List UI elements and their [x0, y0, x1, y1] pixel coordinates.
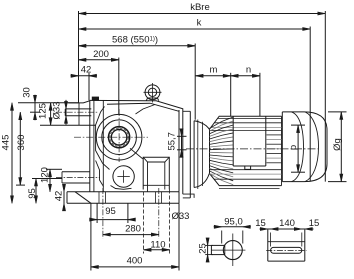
- block lower line: [143, 184, 169, 186]
- bell seam 1: [197, 120, 199, 190]
- stator right edge: [281, 116, 283, 185]
- dim 445 line: [11, 103, 13, 204]
- flange bell: [193, 121, 195, 188]
- svg-text:15: 15: [255, 218, 266, 229]
- dim k line: [79, 28, 311, 30]
- block inner right vertical: [164, 162, 166, 190]
- svg-text:n: n: [246, 65, 251, 76]
- ext key left: [270, 233, 272, 247]
- foot hole axis right (x=158.8): [158, 188, 160, 239]
- detail2 outer rect: [267, 230, 269, 262]
- tick 55,7 bottom: [177, 149, 187, 151]
- box bottom tab: [245, 166, 251, 169]
- dim kBre line: [79, 13, 326, 15]
- box bottom edge: [233, 165, 266, 167]
- svg-text:p: p: [288, 145, 299, 150]
- hub face vertical: [78, 103, 80, 125]
- housing flange vertical x=103.3: [102, 101, 104, 192]
- dim 400 line: [91, 266, 179, 268]
- + cross horizontal: [117, 176, 129, 178]
- detail2 centerline: [266, 249, 306, 251]
- dim 95 bottom line: [90, 219, 135, 221]
- tick 55,7 top: [177, 135, 187, 137]
- ext line y=178.5: [32, 178, 62, 180]
- tick p bottom: [291, 171, 305, 173]
- output bearing boss outer circle: [96, 114, 142, 160]
- dim m line: [196, 75, 231, 77]
- svg-text:m: m: [210, 65, 218, 76]
- spline pitch circle dashed: [110, 128, 128, 146]
- dim 30 line: [34, 95, 36, 120]
- stator left edge: [209, 129, 211, 173]
- dim p line: [297, 125, 299, 172]
- fan cowl seam arc 1: [292, 112, 304, 182]
- svg-text:400: 400: [127, 256, 143, 267]
- motor stator octagon outline: [210, 116, 282, 129]
- contour lower left: [96, 161, 104, 187]
- detail shaft end circle: [223, 241, 242, 260]
- svg-text:Øg: Øg: [332, 138, 343, 151]
- gearbox left wall: [89, 100, 91, 191]
- gearbox right wall inner line: [178, 110, 180, 192]
- block top bevel lines: [143, 157, 169, 162]
- ext line k-right through fan cowl (x=310.2): [309, 27, 311, 182]
- ext 95,0 left: [221, 231, 223, 244]
- hub bottom / ext 125 (y=125.2): [40, 124, 96, 126]
- dim 280 line: [103, 234, 159, 236]
- eyebolt axis vertical: [152, 83, 154, 103]
- bore inner circle: [111, 129, 127, 145]
- ext line 200-right (x=118.8): [118, 58, 120, 115]
- bell top curve: [194, 121, 209, 130]
- dim 200 line: [79, 59, 119, 61]
- detail1 key slot: [211, 244, 224, 246]
- svg-text:95: 95: [27, 188, 38, 199]
- svg-text:95: 95: [105, 206, 116, 217]
- shaft end cap: [64, 109, 66, 116]
- stator fin lines: [218, 117, 282, 119]
- dim 360 line: [19, 112, 21, 185]
- bell seam 2: [201, 122, 203, 186]
- tick 25 top: [205, 244, 213, 246]
- detail2 inner line: [268, 241, 305, 243]
- svg-text:200: 200: [93, 49, 109, 60]
- motor bottom skirt line: [219, 188, 280, 190]
- adapter foot: [183, 194, 194, 198]
- eyebolt ring inner: [148, 88, 156, 96]
- svg-text:110: 110: [150, 240, 165, 251]
- ext 400 right (x=179): [178, 203, 180, 270]
- shaft stub axis: [56, 111, 98, 113]
- contour upper right: [136, 105, 156, 115]
- svg-text:Ø33: Ø33: [52, 102, 63, 120]
- contour block to circle diagonal: [130, 148, 143, 159]
- ext 95 left (x=97.1): [96, 203, 98, 223]
- eyebolt ring: [145, 85, 160, 100]
- svg-text:42: 42: [54, 191, 65, 202]
- gearbox left wall inner line: [93, 101, 95, 192]
- fan cowl seam arc 2: [305, 112, 319, 182]
- gearbox housing outline: [90, 100, 183, 194]
- detail1 vertical centerline: [232, 234, 234, 267]
- ext 110 left (x=143.6): [143, 192, 145, 254]
- dim 55,7 line: [181, 129, 183, 157]
- lower stub axis: [56, 176, 100, 178]
- dim O33 left line: [65, 100, 67, 125]
- svg-text:445: 445: [1, 135, 12, 151]
- output axis horizontal: [74, 136, 148, 138]
- contour below + circle: [111, 186, 132, 190]
- block inner left vertical: [147, 162, 149, 192]
- lower shaft stub left: [62, 171, 90, 173]
- svg-text:25: 25: [198, 243, 209, 254]
- svg-text:15: 15: [309, 218, 320, 229]
- tick p top: [291, 124, 305, 126]
- svg-text:120: 120: [40, 167, 51, 183]
- dim 125 line: [50, 103, 52, 125]
- ext 400 left (x=90.9): [90, 203, 92, 270]
- eyebolt base: [146, 98, 159, 101]
- box left vertical: [232, 116, 234, 166]
- ext Og bottom: [328, 181, 347, 183]
- ext line left face (x=78.5): [78, 11, 80, 103]
- eyebolt axis horizontal: [144, 91, 162, 93]
- foot hole axis left (x=102.9): [102, 188, 104, 239]
- tick 120 top (y=169.3): [46, 168, 62, 170]
- svg-text:42: 42: [81, 65, 92, 76]
- ext key right: [301, 233, 303, 247]
- top right slant second line: [150, 103, 179, 111]
- lower bearing circle: [113, 166, 134, 187]
- svg-text:kBre: kBre: [190, 2, 210, 13]
- left foot hole: [98, 192, 100, 204]
- cowl left edge: [281, 112, 283, 182]
- svg-text:280: 280: [125, 224, 141, 235]
- motor adapter plate: [189, 111, 191, 198]
- fan cowl outline: [282, 112, 327, 182]
- detail1 horizontal centerline: [211, 249, 245, 251]
- svg-text:30: 30: [22, 87, 33, 98]
- bore outer circle: [109, 127, 130, 148]
- tick 25 bottom: [205, 254, 213, 256]
- adapter bottom line: [183, 197, 191, 199]
- vent plug (black): [92, 97, 98, 100]
- terminal box white area: [234, 133, 265, 166]
- dim 42 top line: [71, 75, 98, 77]
- dim 25 line: [207, 238, 209, 261]
- output axis vertical: [118, 109, 120, 162]
- shaft top line: [65, 108, 91, 110]
- svg-text:125: 125: [38, 103, 49, 119]
- ext Og top: [328, 111, 347, 113]
- dim 15-140-15 line: [260, 228, 314, 230]
- dim 42 left line: [63, 186, 65, 210]
- ext line 42-right (x=89): [88, 73, 90, 100]
- dim 568 line: [79, 45, 196, 47]
- svg-text:k: k: [197, 18, 202, 29]
- right foot hole: [155, 192, 157, 204]
- dim 95,0 line: [214, 226, 251, 228]
- svg-text:140: 140: [279, 218, 295, 229]
- ext line kBre-right through fan cowl (x=325.3): [324, 11, 326, 182]
- ext line flange face (x=195.2): [194, 44, 196, 120]
- gearbox top chamfer band lower edge: [107, 103, 150, 104]
- lower stub end cap: [61, 172, 63, 183]
- svg-text:95,0: 95,0: [224, 217, 243, 228]
- detail2 key (rounded): [271, 247, 302, 253]
- box right vertical: [265, 116, 267, 166]
- ext 110 right (x=169.6): [169, 190, 171, 254]
- ext line m-right (x=230.7): [230, 73, 232, 116]
- motor axis centerline: [186, 148, 318, 150]
- bearing cover circle: [102, 120, 137, 155]
- dim n line: [231, 75, 260, 77]
- bell bottom curve: [194, 174, 209, 188]
- ext line hub top (y=102.8): [18, 102, 78, 104]
- ext 95,0 right: [242, 231, 244, 244]
- ext line n-right (x=259.9): [259, 73, 261, 116]
- hub top line: [68, 101, 89, 103]
- shaft bottom line: [65, 115, 91, 117]
- dim 110 line: [144, 249, 170, 251]
- dim 95 left line: [35, 179, 37, 204]
- left fin fan lines: [210, 117, 234, 128]
- base left chamfer: [75, 192, 91, 204]
- ext 95 right (x=127.9): [127, 203, 129, 223]
- dim 120 line: [49, 169, 51, 192]
- svg-text:55,7: 55,7: [167, 132, 178, 151]
- block boss outline: [143, 157, 169, 189]
- tick 30-bottom (y=112.2): [30, 111, 40, 113]
- svg-text:Ø33: Ø33: [172, 211, 190, 222]
- housing casting contour around output circle: [96, 107, 110, 170]
- svg-text:360: 360: [16, 135, 27, 151]
- + cross vertical: [123, 170, 125, 182]
- tick 360 bottom (y=185.1): [16, 184, 25, 186]
- dim Og line: [340, 112, 342, 182]
- base rail: [67, 191, 179, 193]
